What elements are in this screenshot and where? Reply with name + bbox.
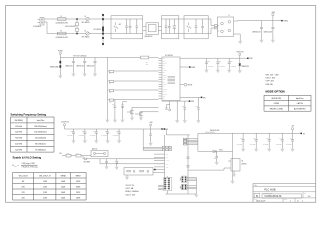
TVS clamp block D3 D4 <box>162 16 179 39</box>
capacitor C30 buck input <box>149 129 152 143</box>
svg-text:10u: 10u <box>240 138 242 140</box>
svg-text:104: 104 <box>166 157 168 159</box>
wire: 5V output bus <box>233 132 302 134</box>
svg-text:4-1640819-DPL: 4-1640819-DPL <box>56 37 69 39</box>
svg-text:24V-PLUG: 24V-PLUG <box>61 121 69 123</box>
TVS D1 on line L <box>82 16 90 24</box>
filter block C-GDT <box>184 16 208 39</box>
capacitor C23 output filter <box>250 133 258 148</box>
op-amp U1 main controller <box>159 55 181 101</box>
svg-text:10u: 10u <box>93 130 95 132</box>
ground: C24 <box>267 149 271 152</box>
svg-text:VIN_ON_H: VIN_ON_H <box>19 175 29 177</box>
wire: VCC bus drop to ground <box>106 104 108 120</box>
wire: output node vertical <box>232 133 234 181</box>
fuse F2 <box>56 30 69 39</box>
node MODE pin <box>180 83 192 86</box>
svg-text:10u: 10u <box>279 138 281 140</box>
svg-text:LMV431: LMV431 <box>241 164 246 166</box>
power flag +5V <box>291 126 295 134</box>
ground: C5 <box>93 74 97 77</box>
svg-text:10u: 10u <box>219 61 221 63</box>
ground: C1 <box>259 40 263 43</box>
ground: C3 <box>71 74 75 77</box>
wire: U2 ground return <box>166 191 197 194</box>
svg-text:PLC HUB: PLC HUB <box>264 187 276 191</box>
connector CN1 AC input <box>33 18 44 28</box>
shunt regulator U4 LMV431 <box>228 159 247 174</box>
svg-text:PGND: PGND <box>163 93 167 95</box>
capacitor C9 U1 bypass <box>205 58 213 70</box>
svg-text:105: 105 <box>182 106 184 108</box>
svg-text:Enable & UVLO Setting: Enable & UVLO Setting <box>13 156 42 160</box>
capacitor C3 rail decoupling <box>65 58 75 74</box>
resistor R22 EN divider <box>76 153 81 157</box>
net tag 5V at buck input <box>164 128 168 131</box>
ground: C18 <box>117 140 121 143</box>
ground: Q1 <box>130 118 134 121</box>
svg-text:1: 1 <box>290 201 291 203</box>
ground: VCC bus <box>105 120 109 123</box>
svg-text:10u: 10u <box>290 138 292 140</box>
U2 pin stubs left <box>154 154 169 169</box>
svg-text:350 KHz: 350 KHz <box>15 138 22 140</box>
diode D12 reverse protect <box>148 128 163 130</box>
svg-text:76.78(Kohm): 76.78(Kohm) <box>35 149 46 151</box>
net tag P5V at U1 <box>247 58 253 61</box>
svg-text:OVP: 45V: OVP: 45V <box>266 81 275 83</box>
power flag buck input node <box>149 122 153 129</box>
capacitor C14 plug rail <box>67 129 75 140</box>
resistor R14 series on pin stub <box>108 99 159 104</box>
net tag P5V <box>189 100 194 103</box>
capacitor C5 rail decoupling <box>87 58 97 74</box>
svg-text:Ideal Res: Ideal Res <box>37 120 45 122</box>
svg-text:EP: EP <box>163 96 165 98</box>
ground: C26 <box>290 149 294 152</box>
TVS D2 on line N <box>82 30 90 38</box>
svg-text:P5V: P5V <box>191 101 194 103</box>
ground: drop 177 <box>175 120 179 123</box>
svg-text:86.07(Kohm): 86.07(Kohm) <box>35 143 46 145</box>
ground: D8 <box>238 70 242 73</box>
zener D6 MMSZ5248B <box>50 58 61 76</box>
ground: C10 <box>216 70 220 73</box>
label: MODE OPTION title <box>266 90 285 94</box>
svg-text:SW FREQ: SW FREQ <box>15 120 24 122</box>
svg-text:0R: 0R <box>109 83 111 85</box>
wire: 24V rail <box>60 57 107 59</box>
svg-text:2024-10-29: 2024-10-29 <box>256 201 265 203</box>
wire: U2 out to shunt ref <box>188 168 228 170</box>
formula: RENB <box>13 163 38 168</box>
ground: C13 <box>196 120 200 123</box>
net tag P24V input bus end <box>281 20 288 23</box>
ground: C4 <box>83 74 87 77</box>
svg-text:1.2M: 1.2M <box>43 192 47 194</box>
svg-text:VIN: VIN <box>163 58 165 60</box>
svg-text:EN: EN <box>60 153 62 155</box>
svg-text:10u: 10u <box>253 138 255 140</box>
svg-text:ILIM: ILIM <box>163 91 165 93</box>
capacitor C1 input bulk <box>252 21 263 40</box>
svg-text:MMSZ4713: MMSZ4713 <box>242 66 249 68</box>
wire: RN fanout left <box>180 178 181 189</box>
photocoupler U5 <box>91 148 108 157</box>
inductor L2 buck output <box>198 129 233 151</box>
ground: C2 <box>271 40 275 43</box>
svg-text:9V/ 15V/ LM5164: 9V/ 15V/ LM5164 <box>73 55 86 57</box>
svg-text:49.9K: 49.9K <box>166 160 169 162</box>
svg-text:MODE: MODE <box>163 89 167 91</box>
wire: drop to ground at 177 <box>176 101 178 120</box>
capacitor C12 lower bypass <box>182 101 186 120</box>
svg-text:EN: EN <box>203 97 205 99</box>
table: enable uvlo <box>13 173 87 201</box>
wire: input line N (bottom) <box>44 22 208 34</box>
wire: U1 EN out <box>180 96 202 98</box>
label: enable uvlo title <box>13 156 42 160</box>
svg-text:U1 LM5146: U1 LM5146 <box>165 55 173 57</box>
capacitor C17 plug rail <box>101 129 109 140</box>
svg-text:24K: 24K <box>77 153 79 155</box>
wire: EN line to U2 <box>87 158 165 160</box>
svg-text:EN_rising x R ENT: EN_rising x R ENT <box>23 163 35 165</box>
capacitor C24 output filter <box>263 133 271 148</box>
svg-text:D2: D2 <box>85 30 87 32</box>
title block <box>253 184 316 203</box>
ground: C15 <box>83 140 87 143</box>
svg-text:SS: SS <box>163 67 165 69</box>
power module PS1 <box>143 23 162 38</box>
svg-text:UVLO: 10V: UVLO: 10V <box>266 78 276 80</box>
note text: output specs <box>126 185 139 196</box>
svg-text:OPEN: OPEN <box>274 103 280 105</box>
svg-text:LED-RED: LED-RED <box>84 162 92 164</box>
ground: C20 <box>105 166 109 169</box>
svg-text:VCC: VCC <box>163 77 166 79</box>
ground: C8 <box>120 120 124 123</box>
svg-text:SYNC: SYNC <box>163 84 167 86</box>
svg-text:10u: 10u <box>116 130 118 132</box>
svg-text:0R: 0R <box>109 102 111 104</box>
svg-text:Switching Frequency Setting: Switching Frequency Setting <box>11 112 47 116</box>
node below U1 with capacitor pair <box>165 101 170 111</box>
svg-text:B: B <box>256 194 258 198</box>
surge filter block FL1 <box>111 16 143 39</box>
svg-text:MOV-14D561K: MOV-14D561K <box>65 26 75 28</box>
svg-text:MMSZ5248B: MMSZ5248B <box>50 66 58 68</box>
capacitor C22 output filter <box>237 133 245 148</box>
svg-text:SPL-HB220: SPL-HB220 <box>82 22 90 24</box>
resistor R13 series on pin stub <box>108 90 159 95</box>
resistor R21 EN divider <box>60 153 91 157</box>
wire: choke return to ground <box>234 34 241 41</box>
svg-text:P24V-SYS: P24V-SYS <box>236 51 243 53</box>
svg-text:P24V: P24V <box>192 67 196 69</box>
svg-text:300 KHz: 300 KHz <box>15 132 22 134</box>
ground: Q2 <box>139 118 143 121</box>
svg-text:GB4-B2412: GB4-B2412 <box>145 36 153 38</box>
ground: U2 return <box>194 195 198 198</box>
wire: U1 VCC out <box>180 57 248 59</box>
ground: zener D6 <box>58 76 62 79</box>
svg-text:VIN: 15V ~ 48V: VIN: 15V ~ 48V <box>266 74 280 76</box>
capacitor C25 output filter <box>276 133 284 148</box>
label: rail voltages <box>73 55 86 57</box>
svg-text:10u: 10u <box>230 61 232 63</box>
wire: bus junction down to divider cluster <box>143 129 163 150</box>
ground: choke return <box>238 41 242 44</box>
ground: C21 <box>215 162 219 165</box>
svg-text:GDT-5R230: GDT-5R230 <box>94 29 102 31</box>
capacitor C20 EN filter <box>105 159 108 167</box>
svg-text:Ideal Fun: Ideal Fun <box>296 98 304 100</box>
svg-text:100K: 100K <box>67 153 70 155</box>
svg-text:0R: 0R <box>109 92 111 94</box>
svg-text:IN_UVLO - V EN_rising: IN_UVLO - V EN_rising <box>23 167 38 169</box>
svg-text:102: 102 <box>214 157 216 159</box>
ground: C11 <box>227 70 231 73</box>
svg-text:SPL-HB220: SPL-HB220 <box>82 36 90 38</box>
wire: RN fanout right <box>187 178 197 195</box>
svg-text:1.2M: 1.2M <box>43 197 47 199</box>
svg-text:10u: 10u <box>266 138 268 140</box>
svg-text:2-1640810: 2-1640810 <box>33 26 41 28</box>
svg-text:MODE PIN: MODE PIN <box>272 98 282 100</box>
op-amp U2 buck regulator right bus <box>187 135 190 194</box>
capacitor C4 rail decoupling <box>76 58 86 74</box>
ground: C14 <box>71 140 75 143</box>
svg-text:COMP: COMP <box>163 74 167 76</box>
capacitor C8 pin filter <box>121 102 127 120</box>
power flag P24V-SYS <box>236 51 243 58</box>
table: switching frequency <box>11 117 55 152</box>
svg-text:1: 1 <box>302 201 303 203</box>
ground: C12 <box>183 120 187 123</box>
label: switching frequency title <box>11 112 47 116</box>
power flag PGND rail node <box>58 51 63 58</box>
svg-text:4-1640819-DPL: 4-1640819-DPL <box>56 22 69 24</box>
svg-text:BST: BST <box>163 79 166 81</box>
ground: C25 <box>280 149 284 152</box>
svg-text:VOUT: 5V: VOUT: 5V <box>126 185 135 187</box>
capacitor C18 plug rail <box>113 129 121 140</box>
svg-text:UVLO: 10V: UVLO: 10V <box>126 194 136 196</box>
svg-text:AUTORETRY: AUTORETRY <box>294 108 306 111</box>
LED D9 indicator <box>83 156 91 164</box>
svg-text:1.2M: 1.2M <box>43 181 47 183</box>
capacitor C21 snubber <box>214 151 218 162</box>
svg-text:IOUT: 3A: IOUT: 3A <box>126 187 134 190</box>
net tag EN <box>201 97 205 100</box>
resistor R11 series on pin stub <box>108 71 159 76</box>
wire: U1 bottom rail <box>162 100 190 102</box>
svg-text:105: 105 <box>196 106 198 108</box>
svg-text:EN: EN <box>163 60 165 62</box>
capacitor C26 output filter <box>286 133 294 148</box>
svg-text:FB: FB <box>163 72 165 74</box>
net tag 5V bus end <box>301 133 306 136</box>
svg-text:10K: 10K <box>166 154 168 156</box>
capacitor C11 U1 bypass <box>228 58 236 70</box>
ground: C9 <box>204 70 208 73</box>
svg-text:110.52(Kohm): 110.52(Kohm) <box>35 138 47 140</box>
svg-text:0R: 0R <box>109 73 111 75</box>
ground: U4 <box>232 174 236 177</box>
ground: C30 <box>149 143 153 146</box>
resistor network RN1 <box>164 176 172 191</box>
svg-text:500 KHz: 500 KHz <box>15 149 22 151</box>
capacitor C13 lower bypass <box>196 97 200 120</box>
varistor RV1 RV2 between lines <box>65 18 78 34</box>
svg-text:1.2M: 1.2M <box>43 186 47 188</box>
ground: C7 <box>113 120 117 123</box>
transistor Q1 <box>127 107 159 117</box>
svg-text:10u: 10u <box>208 61 210 63</box>
wire: RN1 left stubs <box>158 185 164 189</box>
capacitor C7 pin filter <box>112 99 116 119</box>
svg-text:104: 104 <box>146 61 148 63</box>
svg-text:200 KHz: 200 KHz <box>15 126 22 128</box>
ground: output vertical <box>230 181 234 184</box>
svg-text:236.625(Kohm): 236.625(Kohm) <box>34 126 47 128</box>
svg-text:10K: 10K <box>166 163 168 165</box>
ground: C17 <box>106 140 110 143</box>
svg-text:SS54: SS54 <box>219 149 223 151</box>
ferrite bead FB1 on rail <box>108 56 159 66</box>
wire: input line L (top) <box>44 18 208 20</box>
svg-text:PG: PG <box>163 86 165 88</box>
ground: comp network <box>125 175 129 180</box>
wire: bus into buck stage <box>167 129 191 135</box>
resistor R12 series on pin stub <box>108 81 159 86</box>
svg-text:D1: D1 <box>85 16 87 18</box>
fuse F1 <box>56 16 69 25</box>
common-mode choke CM1 <box>217 15 233 37</box>
ground: C23 <box>254 149 258 152</box>
svg-text:NC: NC <box>163 98 165 100</box>
svg-text:UVLO: UVLO <box>163 63 166 65</box>
svg-text:10u: 10u <box>82 130 84 132</box>
capacitor C2 input bulk <box>264 21 275 40</box>
diode D11 freewheel <box>198 149 233 153</box>
svg-text:1nF: 1nF <box>166 167 168 169</box>
svg-text:10u: 10u <box>71 130 73 132</box>
power flag 24V-PLUG <box>61 121 69 129</box>
power flag +VIN <box>271 12 276 21</box>
gas discharge tube GT1 vertical bus <box>94 14 104 46</box>
resistor network RN3 <box>181 184 187 189</box>
transistor Q2 <box>135 111 159 118</box>
svg-text:LATCH: LATCH <box>297 102 304 105</box>
sheet border frame (decorative) <box>6 6 316 203</box>
compensation network box <box>124 168 165 176</box>
svg-text:FREQ: 500KHz: FREQ: 500KHz <box>126 191 139 193</box>
plug J2 <box>214 25 217 29</box>
wire: filter to plug <box>208 19 214 34</box>
zener D10 EN clamp <box>116 159 119 167</box>
svg-text:ILIM: 6A: ILIM: 6A <box>266 83 274 86</box>
note text: input specs <box>266 74 280 86</box>
svg-text:RT: RT <box>163 65 165 67</box>
svg-text:RENB: RENB <box>61 175 67 177</box>
svg-text:MODE: MODE <box>188 85 193 87</box>
net tag ST lower left <box>154 169 156 171</box>
ground: C16 <box>94 140 98 143</box>
wire: VIN pin bundle with series resistors <box>183 138 198 145</box>
svg-text:GDT: GDT <box>119 24 122 26</box>
svg-text:ENB: ENB <box>14 165 17 167</box>
svg-text:400 KHz: 400 KHz <box>15 143 22 145</box>
wire: FB line to U2 <box>100 159 165 164</box>
svg-text:136.425(Kohm): 136.425(Kohm) <box>34 132 47 134</box>
svg-text:25V: 25V <box>146 64 148 66</box>
svg-text:MODE OPTION: MODE OPTION <box>266 90 285 94</box>
resistor network RN2 <box>181 176 187 182</box>
capacitor C10 U1 bypass <box>216 58 224 70</box>
net tag 1 <box>189 66 195 69</box>
svg-text:104: 104 <box>112 104 114 106</box>
op-amp U2 buck regulator left bus <box>164 135 166 178</box>
ground: C22 <box>241 149 245 152</box>
table: mode option <box>264 95 311 111</box>
wire: choke output to VIN bus <box>234 20 282 22</box>
svg-text:VIN_VOUT_H: VIN_VOUT_H <box>39 175 51 177</box>
resistor cluster on U2 input <box>162 146 171 150</box>
wire: VCC vertical bus <box>107 58 109 104</box>
svg-text:SHORT to GND: SHORT to GND <box>270 108 284 111</box>
capacitor C16 plug rail <box>90 129 98 140</box>
wire: 24V plug bus <box>65 128 149 130</box>
capacitor C15 plug rail <box>78 129 86 140</box>
zener D8 MMSZ4713 <box>238 58 249 70</box>
wire: U1 to net 1 <box>180 66 190 68</box>
svg-text:10u: 10u <box>105 130 107 132</box>
svg-text:U4: U4 <box>241 161 243 163</box>
ground: D10 <box>115 167 119 170</box>
